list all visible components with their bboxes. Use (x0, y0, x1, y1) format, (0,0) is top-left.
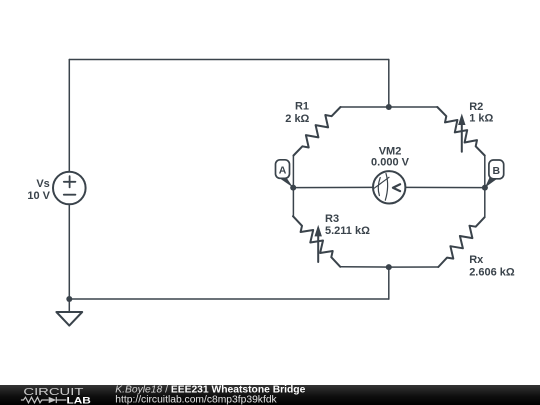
label R3 value (325, 213, 370, 237)
ground (56, 312, 82, 326)
svg-text:5.211 kΩ: 5.211 kΩ (325, 225, 370, 237)
resistor R1 (294, 107, 341, 156)
svg-text:R1: R1 (295, 101, 309, 113)
resistor R3 (variable) (293, 216, 340, 267)
node junction: ground rail (66, 296, 72, 302)
svg-text:A: A (279, 165, 287, 177)
svg-text:0.000 V: 0.000 V (371, 157, 410, 169)
wire: R1 bottom to node A (292, 156, 294, 188)
wire: node A down to R3 (292, 188, 294, 217)
wire: node B down to Rx top (484, 188, 486, 218)
svg-text:Vs: Vs (36, 178, 49, 190)
wire: top rail (69, 59, 389, 61)
label Rx value (469, 254, 515, 279)
label R1 value (285, 101, 309, 125)
node junction: bridge bottom (386, 264, 392, 270)
wire: ground junction up to Vs bottom (68, 204, 70, 299)
wire: bridge top left segment to R1 (341, 106, 389, 108)
wire: bridge top right segment to R2 (389, 106, 438, 108)
svg-text:10 V: 10 V (27, 190, 50, 202)
svg-text:LAB: LAB (67, 396, 91, 405)
svg-text:VM2: VM2 (379, 145, 402, 157)
voltage source Vs (53, 172, 86, 205)
wire: Vs top to top-left corner (68, 60, 70, 173)
wire: R3 bottom to bottom mid junction (340, 266, 389, 268)
wire: voltmeter right to node B (405, 186, 485, 188)
resistor R2 (variable) (437, 107, 484, 156)
node B flag (485, 160, 504, 188)
svg-text:B: B (493, 165, 501, 177)
resistor Rx (438, 217, 484, 267)
wire: ground junction to ground symbol (68, 299, 70, 312)
node junction: bridge top (386, 104, 392, 110)
svg-text:R3: R3 (325, 213, 339, 225)
wire: drop from rail to bridge top (388, 60, 390, 108)
node junction: node A dot (290, 185, 296, 191)
wire: bottom mid junction down (388, 267, 390, 299)
svg-text:2 kΩ: 2 kΩ (285, 113, 309, 125)
node junction: node B dot (482, 185, 488, 191)
CircuitLab logo (21, 387, 91, 405)
svg-text:Rx: Rx (469, 254, 484, 266)
label R2 value (469, 101, 493, 125)
label VM2 value (371, 145, 410, 168)
footer bar (0, 385, 540, 405)
wire: bottom mid junction to Rx (389, 266, 439, 268)
svg-text:1 kΩ: 1 kΩ (469, 112, 493, 124)
voltmeter VM2 (373, 171, 405, 203)
svg-text:R2: R2 (469, 101, 483, 113)
wire: node A to voltmeter left (293, 186, 373, 188)
label Vs (27, 178, 50, 202)
svg-text:http://circuitlab.com/c8mp3fp3: http://circuitlab.com/c8mp3fp39kfdk (115, 395, 277, 405)
node A flag (276, 160, 294, 188)
wire: R2 bottom to node B (484, 156, 486, 188)
svg-text:2.606 kΩ: 2.606 kΩ (469, 267, 515, 279)
wire: bottom rail (69, 298, 389, 300)
footer attribution text (115, 385, 305, 405)
